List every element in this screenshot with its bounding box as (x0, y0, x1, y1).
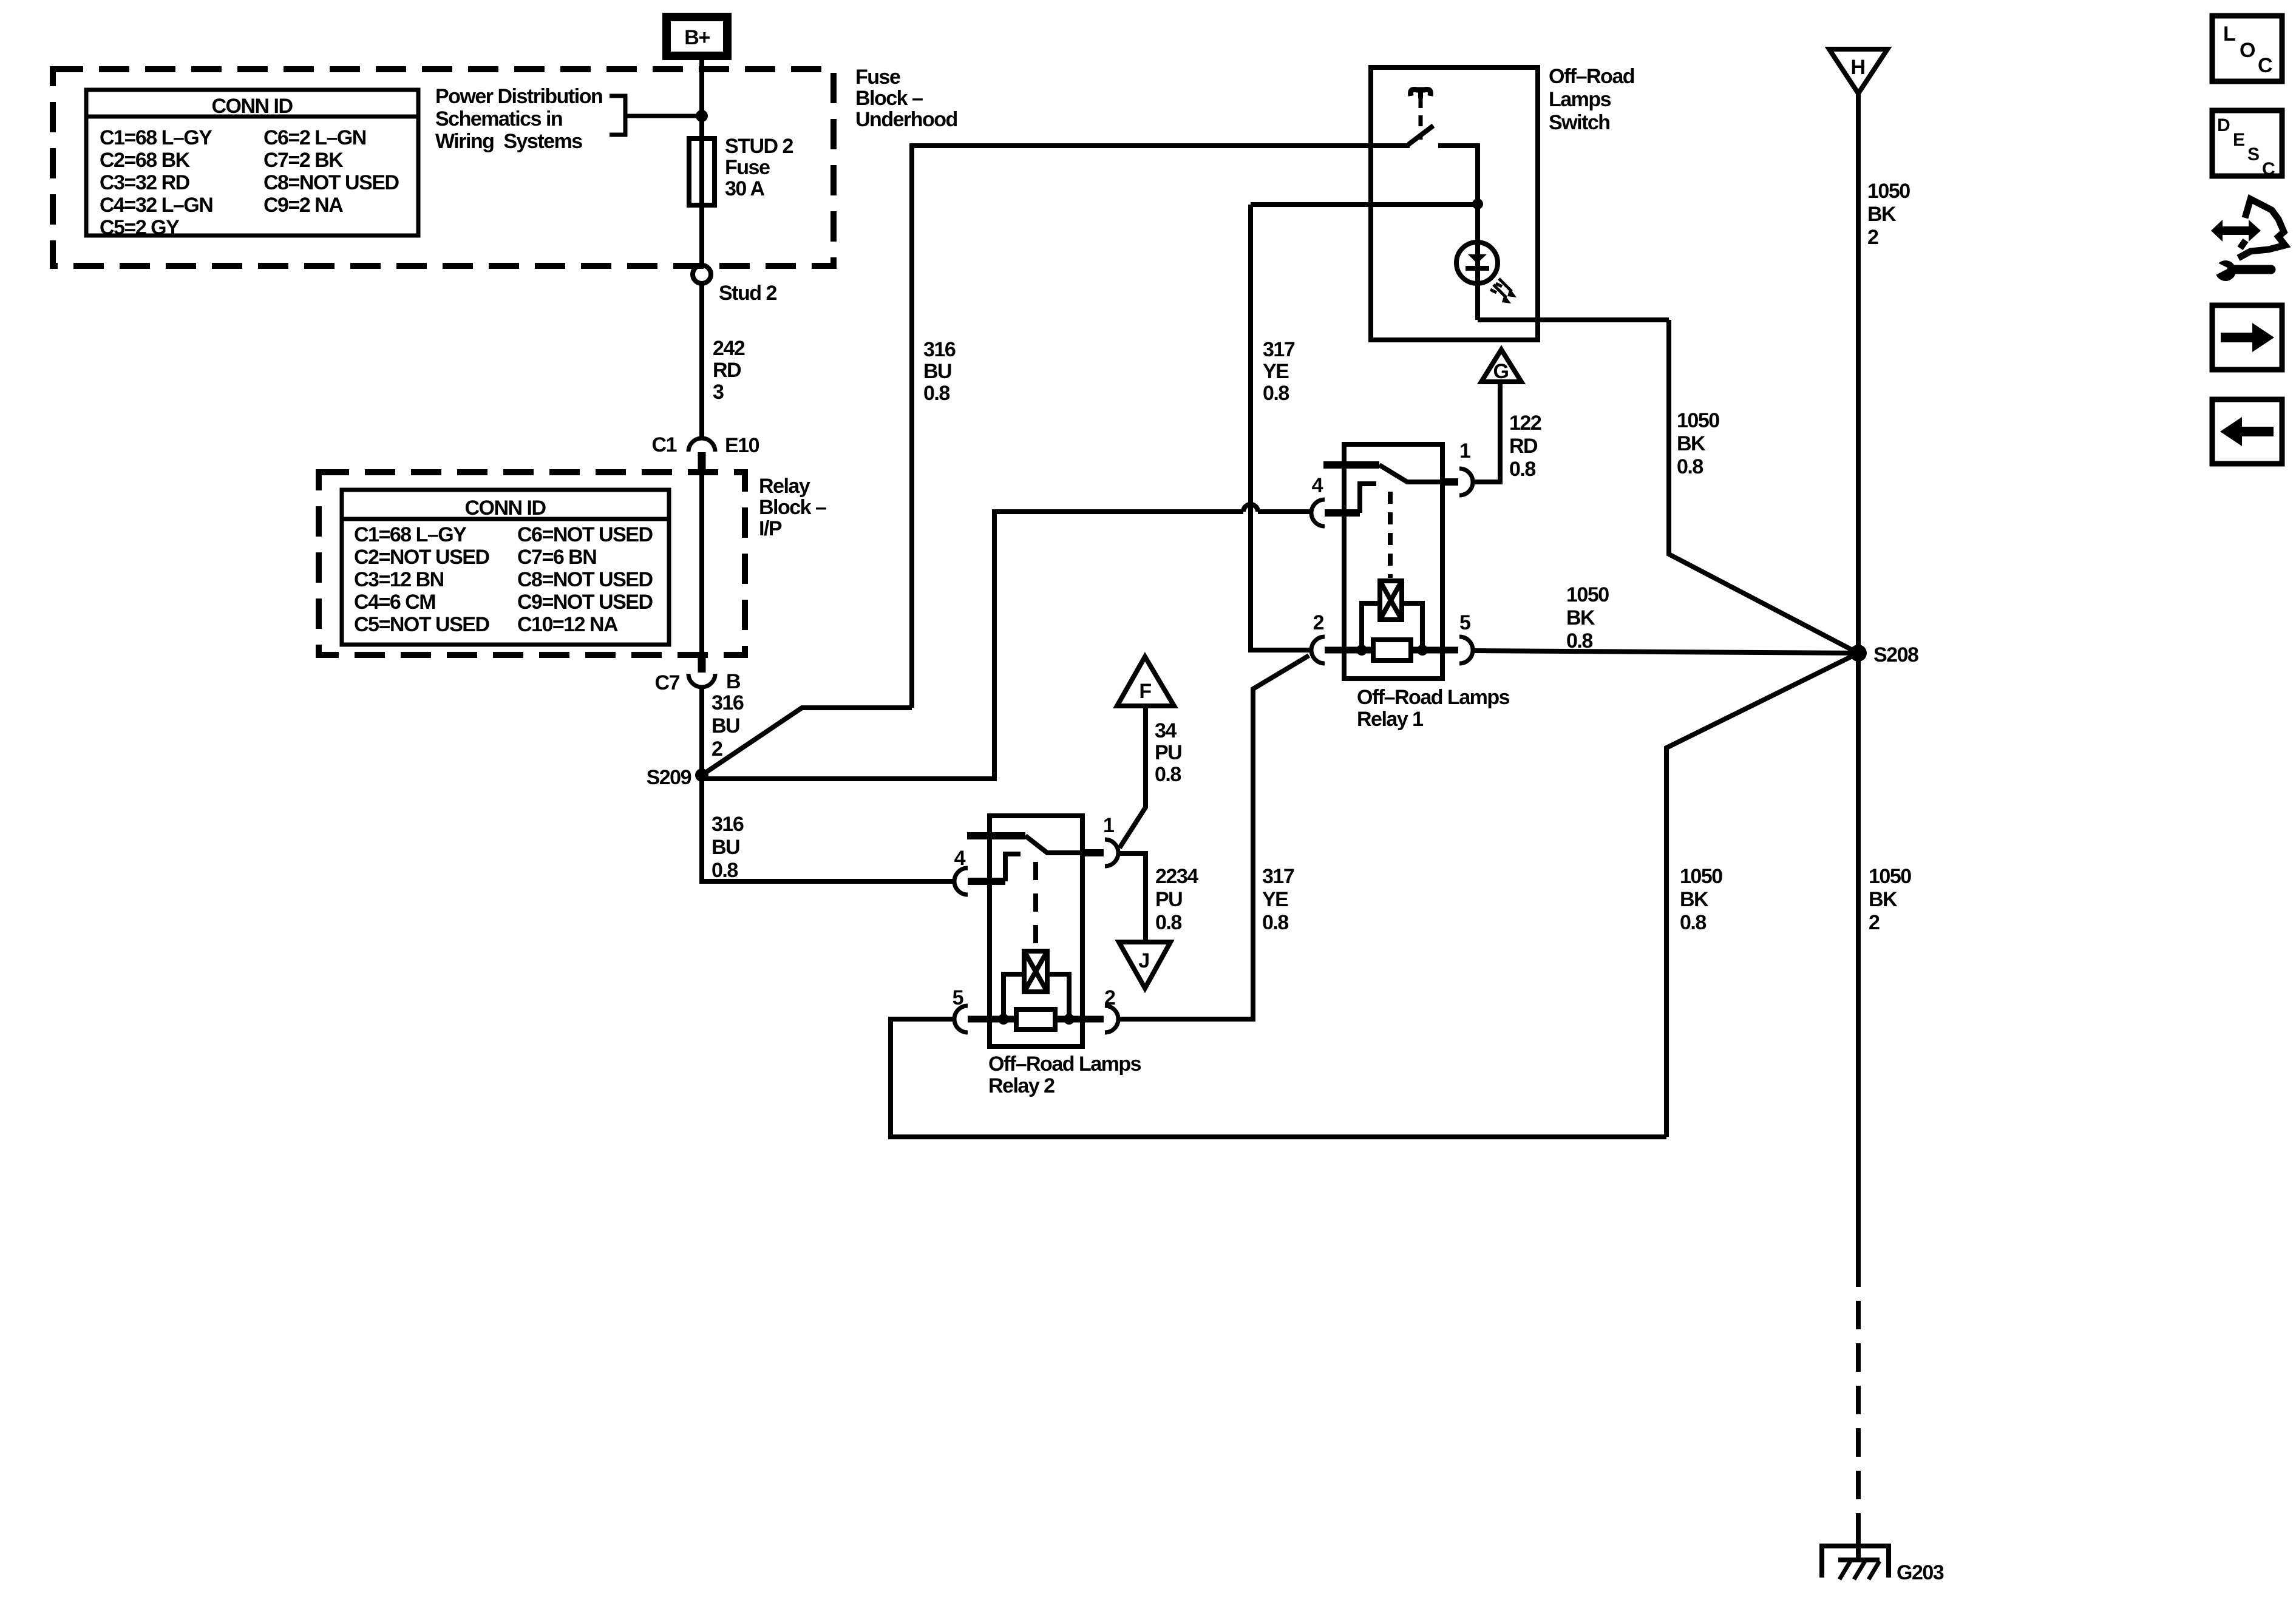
wire inside relay block (699, 473, 704, 655)
svg-text:G203: G203 (1897, 1561, 1944, 1584)
switch knob stem dashes (1419, 97, 1423, 140)
svg-text:0.8: 0.8 (1566, 629, 1592, 653)
wire S209 diagonal to 316 feed riser (702, 708, 912, 775)
relay 2 coil parallel branch (1004, 974, 1069, 1019)
svg-text:122: 122 (1509, 412, 1541, 435)
relay 1 coil parallel branch (1362, 603, 1422, 650)
svg-text:D: D (2217, 115, 2230, 135)
relay 2 fixed contact L (1005, 854, 1021, 881)
relay 1 pin 1 (1442, 439, 1473, 495)
svg-text:1: 1 (1103, 814, 1114, 837)
wire 122 RD 0.8 G to relay 1 pin 1 (1473, 382, 1541, 482)
wire 316 BU 2 to S209 (702, 687, 744, 775)
node switch LED tap (1472, 198, 1483, 209)
destination triangle F (1117, 657, 1174, 706)
relay 1 common bar (1323, 461, 1379, 469)
svg-text:C9=2 NA: C9=2 NA (263, 194, 343, 217)
svg-text:E: E (2233, 130, 2245, 150)
splice S208 (1850, 643, 1918, 666)
wire 316 BU 0.8 riser to switch (912, 146, 1410, 708)
svg-text:C3=32 RD: C3=32 RD (100, 171, 190, 194)
relay 1 pin2 to pin5 bar (1325, 647, 1458, 654)
svg-text:2: 2 (712, 737, 722, 761)
svg-text:2: 2 (1104, 986, 1115, 1009)
svg-text:1: 1 (1459, 439, 1470, 463)
relay 1 blade (1379, 465, 1441, 482)
svg-text:Relay: Relay (759, 475, 810, 498)
icon schematic tool (arrow and wrench) (2211, 199, 2285, 281)
fuse block underhood dashed enclosure (53, 69, 834, 266)
svg-text:2: 2 (1869, 911, 1880, 934)
fuse STUD 2 30A (689, 135, 793, 205)
svg-text:317: 317 (1262, 865, 1294, 888)
svg-text:Off–Road: Off–Road (1549, 65, 1634, 88)
relay 1 junction dots (1356, 645, 1367, 656)
svg-text:Off–Road Lamps: Off–Road Lamps (988, 1053, 1141, 1076)
svg-text:C2=68 BK: C2=68 BK (100, 149, 191, 172)
connector C7 / B (655, 655, 741, 694)
svg-text:4: 4 (1312, 474, 1323, 497)
svg-text:242: 242 (713, 337, 745, 360)
svg-text:1050: 1050 (1867, 180, 1910, 203)
relay 2 blade (1025, 836, 1081, 853)
svg-text:C6=2 L–GN: C6=2 L–GN (263, 126, 366, 149)
svg-text:STUD 2: STUD 2 (725, 135, 793, 158)
svg-text:BK: BK (1680, 888, 1709, 911)
svg-text:0.8: 0.8 (1155, 763, 1181, 786)
LED indicator (1456, 242, 1498, 283)
connector C1 / E10 (652, 433, 759, 473)
wire 317 YE riser to relay 1 pin 2 (1251, 205, 1311, 650)
origin triangle H (1829, 49, 1887, 93)
svg-text:Power Distribution: Power Distribution (435, 85, 602, 108)
wire relay 2 pin 5 to ground bus (891, 1019, 1666, 1137)
svg-text:BU: BU (923, 360, 951, 383)
svg-text:317: 317 (1263, 338, 1295, 361)
svg-text:J: J (1138, 949, 1149, 972)
svg-text:0.8: 0.8 (1677, 455, 1703, 478)
relay block I/P dashed enclosure (319, 472, 745, 655)
svg-text:C2=NOT USED: C2=NOT USED (354, 546, 489, 569)
wire 317 YE relay1 pin2 down to relay 2 pin 2 (1119, 656, 1309, 1019)
svg-text:BU: BU (712, 714, 739, 737)
svg-text:4: 4 (954, 847, 966, 870)
relay 2 pin5 to pin2 bar (968, 1016, 1104, 1023)
svg-text:34: 34 (1155, 719, 1177, 742)
icon arrow left (2212, 399, 2282, 464)
svg-text:C10=12 NA: C10=12 NA (517, 613, 618, 636)
svg-text:1050: 1050 (1869, 865, 1911, 888)
svg-text:C8=NOT USED: C8=NOT USED (263, 171, 399, 194)
svg-text:C7: C7 (655, 671, 680, 694)
CONN ID table (fuse block) (86, 90, 418, 239)
svg-text:O: O (2240, 39, 2255, 62)
svg-text:C3=12 BN: C3=12 BN (354, 568, 444, 591)
svg-text:I/P: I/P (759, 517, 782, 540)
svg-text:Fuse: Fuse (855, 66, 900, 89)
wire 34 PU 0.8 F to relay 2 pin 1 (1119, 706, 1181, 848)
relay 2 coil (1024, 951, 1047, 992)
svg-text:Fuse: Fuse (725, 156, 770, 179)
svg-text:0.8: 0.8 (1509, 458, 1535, 481)
svg-text:0.8: 0.8 (1262, 911, 1288, 934)
svg-text:B: B (726, 670, 741, 693)
relay 2 pin 5 (953, 986, 968, 1032)
switch blade (1408, 126, 1433, 144)
svg-text:C4=32 L–GN: C4=32 L–GN (100, 194, 212, 217)
svg-text:BU: BU (712, 836, 739, 859)
svg-text:H: H (1850, 56, 1864, 79)
wire 317 YE output inside switch (1251, 202, 1478, 207)
svg-text:0.8: 0.8 (712, 859, 738, 882)
svg-text:C9=NOT USED: C9=NOT USED (517, 591, 653, 614)
relay 2 pin 4 (954, 847, 1005, 895)
svg-text:YE: YE (1262, 888, 1288, 911)
relay 2 common bar (967, 832, 1025, 839)
svg-text:Relay 1: Relay 1 (1357, 708, 1423, 731)
relay 2 pin 2 (1104, 986, 1118, 1032)
wire switch ground to S208 (1669, 320, 1858, 653)
icon LOC (2212, 16, 2282, 81)
label Fuse Block - Underhood (855, 66, 957, 131)
switch fixed contact to LED junction (1438, 146, 1478, 320)
relay 1 box (1344, 444, 1510, 731)
svg-text:BK: BK (1869, 888, 1898, 911)
svg-text:316: 316 (923, 338, 956, 361)
relay 2 pin 1 (1082, 814, 1118, 866)
svg-text:L: L (2223, 22, 2235, 46)
svg-text:C6=NOT USED: C6=NOT USED (517, 523, 653, 546)
wire 317 YE label lower (1262, 865, 1294, 934)
wire S209 down to relay 2 pin 4 (702, 775, 954, 882)
icon arrow right (2212, 305, 2282, 370)
svg-text:C: C (2262, 159, 2275, 179)
callout bracket Power Distribution (435, 85, 698, 153)
wire 242 RD 3 (702, 283, 745, 438)
switch knob (1411, 89, 1431, 96)
svg-text:PU: PU (1155, 741, 1181, 764)
battery B+ terminal (667, 17, 727, 56)
wire 1050 BK 2 label lower (1869, 865, 1911, 934)
svg-text:316: 316 (712, 691, 744, 714)
svg-text:RD: RD (713, 359, 741, 382)
svg-text:2: 2 (1867, 226, 1878, 249)
svg-text:S208: S208 (1873, 643, 1918, 666)
icon DESC (2212, 110, 2282, 179)
svg-text:BK: BK (1677, 432, 1706, 455)
svg-text:1050: 1050 (1680, 865, 1722, 888)
CONN ID table (relay block) (342, 490, 669, 645)
svg-text:Stud 2: Stud 2 (719, 282, 776, 305)
ground G203 (1822, 1546, 1944, 1584)
svg-text:C1=68 L–GY: C1=68 L–GY (354, 523, 467, 546)
svg-text:C4=6 CM: C4=6 CM (354, 591, 435, 614)
svg-text:BK: BK (1566, 606, 1595, 629)
svg-text:1050: 1050 (1566, 583, 1609, 606)
relay 2 junction dots (998, 1014, 1009, 1025)
svg-text:E10: E10 (725, 434, 759, 457)
relay 1 pin 2 (1311, 611, 1325, 663)
svg-text:Schematics in: Schematics in (435, 107, 562, 131)
wire 1050 BK 2 main ground (1858, 93, 1910, 1258)
svg-text:Block –: Block – (855, 87, 923, 110)
wire fuse to stud 2 (699, 205, 704, 265)
svg-text:0.8: 0.8 (923, 382, 949, 405)
svg-text:0.8: 0.8 (1263, 382, 1289, 405)
relay 2 box (988, 816, 1141, 1097)
svg-text:C8=NOT USED: C8=NOT USED (517, 568, 653, 591)
svg-text:C5=NOT USED: C5=NOT USED (354, 613, 489, 636)
wire B+ down to junction (699, 60, 704, 138)
svg-text:Off–Road Lamps: Off–Road Lamps (1357, 686, 1510, 709)
wire ground bus riser to S208 (1666, 653, 1858, 1137)
svg-text:B+: B+ (684, 26, 710, 49)
svg-text:PU: PU (1155, 888, 1182, 911)
label Relay Block - I/P (759, 475, 826, 540)
svg-text:CONN ID: CONN ID (464, 497, 546, 520)
stud 2 terminal ring (693, 265, 776, 305)
svg-text:Underhood: Underhood (855, 108, 957, 131)
svg-text:BK: BK (1867, 203, 1897, 226)
off-road lamps switch box (1371, 65, 1634, 340)
node power distribution tap (696, 110, 708, 122)
svg-text:C1=68 L–GY: C1=68 L–GY (100, 126, 212, 149)
svg-text:Lamps: Lamps (1549, 88, 1611, 111)
LED light arrows (1490, 279, 1517, 303)
svg-text:5: 5 (953, 986, 963, 1009)
svg-text:C: C (2258, 54, 2272, 77)
splice S209 (647, 766, 708, 789)
svg-text:Relay 2: Relay 2 (988, 1074, 1055, 1097)
svg-text:F: F (1139, 680, 1151, 703)
relay 1 coil (1380, 581, 1402, 620)
svg-text:Switch: Switch (1549, 111, 1610, 134)
svg-text:Block –: Block – (759, 496, 826, 519)
wire S209 to relay 1 pin 4 with hop over 317 (702, 504, 1311, 779)
svg-text:2234: 2234 (1155, 865, 1198, 888)
svg-text:C7=2 BK: C7=2 BK (263, 149, 344, 172)
svg-text:5: 5 (1459, 611, 1470, 634)
wire dashed to G203 (1856, 1258, 1861, 1561)
destination triangle G (1481, 350, 1521, 383)
wire LED to ground exit (1478, 317, 1669, 322)
svg-text:0.8: 0.8 (1155, 911, 1181, 934)
relay 1 pin 4 (1311, 474, 1360, 526)
relay 1 resistor (1373, 640, 1411, 660)
svg-text:S209: S209 (647, 766, 691, 789)
wire 2234 PU 0.8 relay 2 pin 1 to J (1119, 853, 1198, 941)
svg-text:Wiring Systems: Wiring Systems (435, 130, 582, 153)
svg-text:YE: YE (1263, 360, 1289, 383)
svg-text:30 A: 30 A (725, 177, 765, 200)
svg-text:C7=6 BN: C7=6 BN (517, 546, 596, 569)
svg-text:3: 3 (713, 381, 724, 404)
relay 1 pin 5 (1459, 611, 1473, 663)
svg-text:316: 316 (712, 813, 744, 836)
relay 1 fixed contact L (1360, 484, 1376, 513)
svg-text:0.8: 0.8 (1680, 911, 1706, 934)
svg-text:2: 2 (1313, 611, 1324, 634)
svg-text:RD: RD (1509, 435, 1538, 458)
relay 2 resistor (1016, 1009, 1055, 1029)
relay 2 armature link dashed (1033, 862, 1038, 947)
svg-text:S: S (2247, 144, 2260, 164)
relay 1 armature link dashed (1388, 492, 1393, 578)
svg-text:CONN ID: CONN ID (211, 95, 293, 118)
svg-text:C5=2 GY: C5=2 GY (100, 216, 180, 239)
svg-text:1050: 1050 (1677, 409, 1719, 432)
svg-text:C1: C1 (652, 433, 677, 456)
destination triangle J (1119, 942, 1170, 988)
wire relay 1 pin 5 to S208 (1473, 583, 1858, 653)
